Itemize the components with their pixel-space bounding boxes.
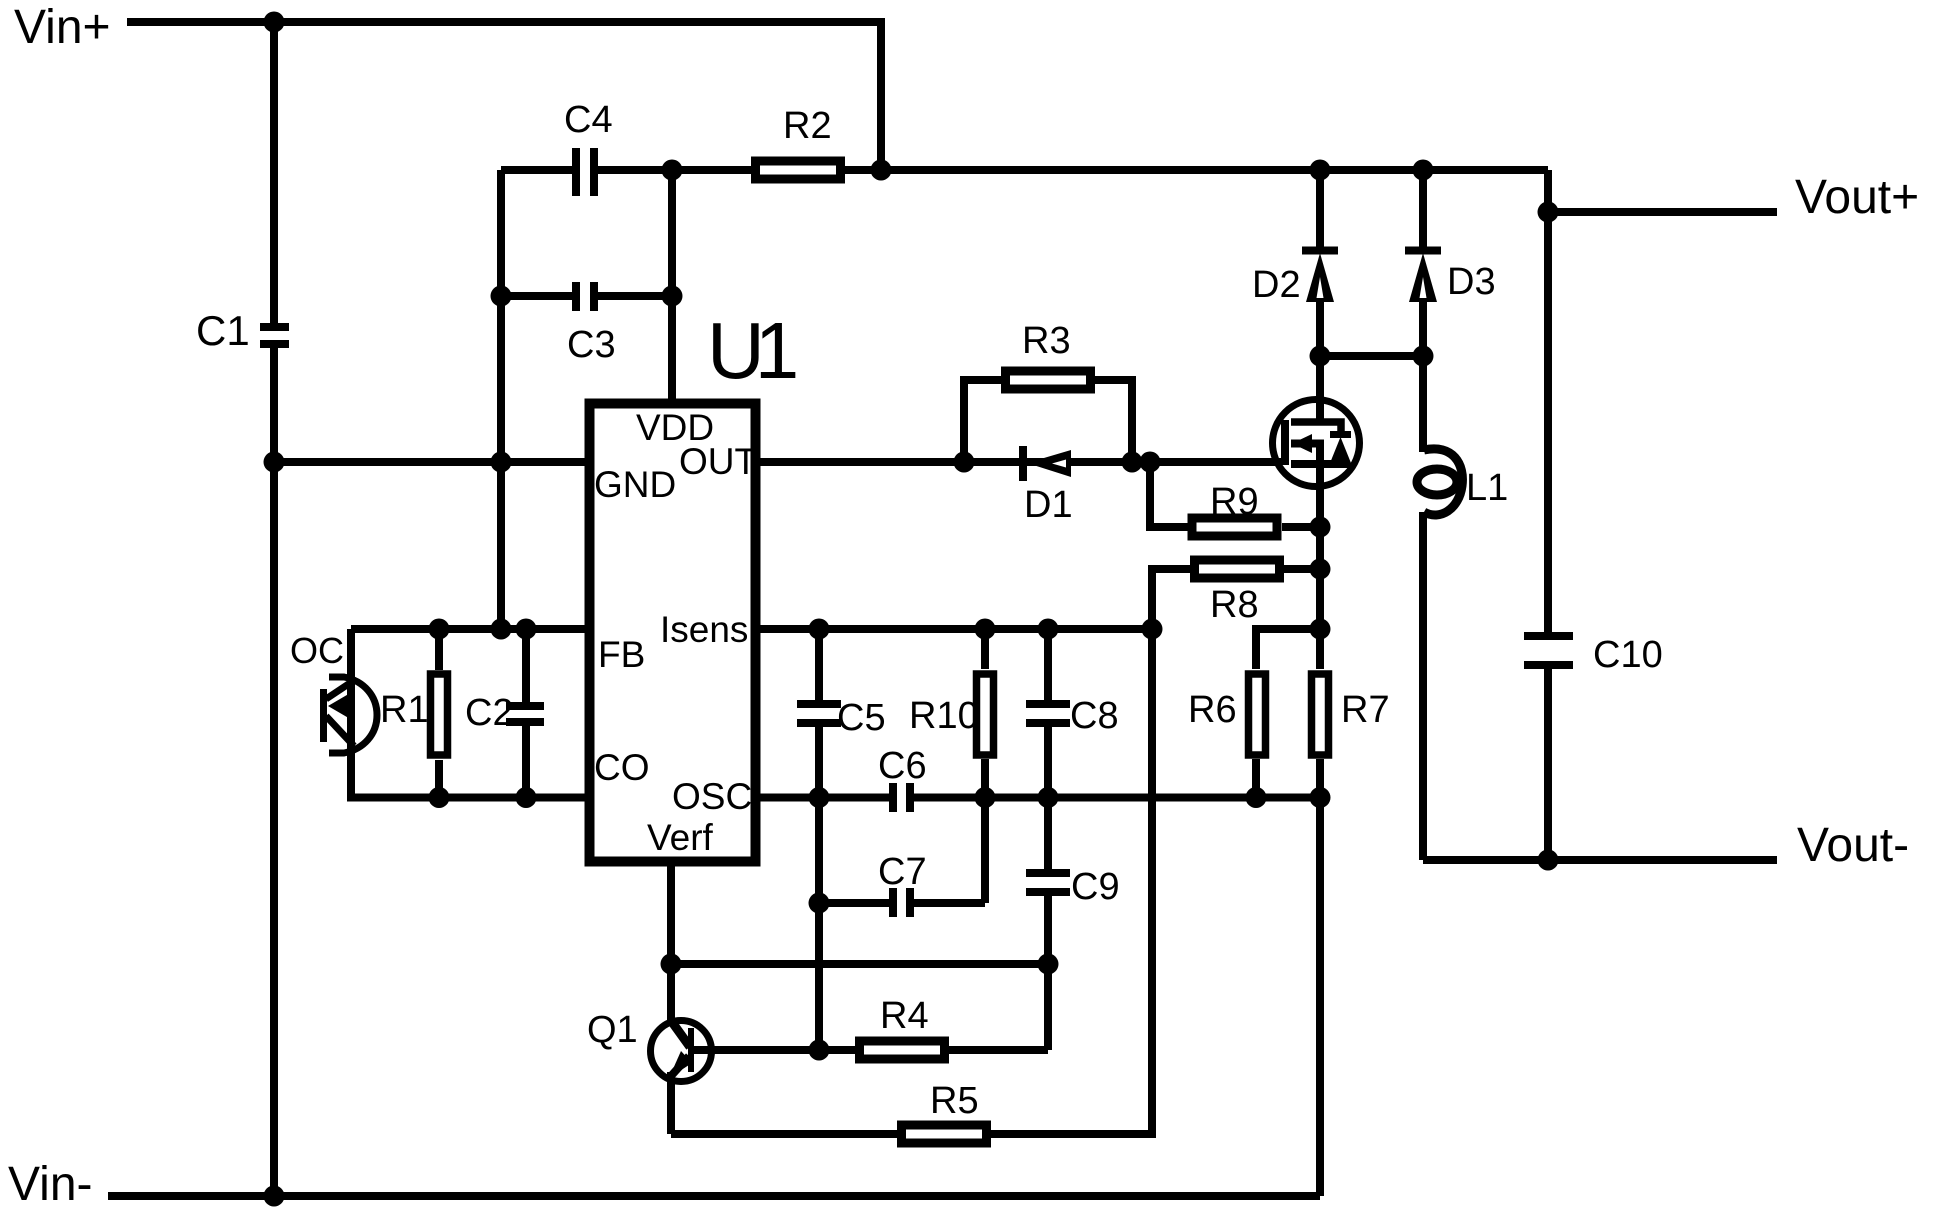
svg-text:C3: C3: [567, 324, 616, 366]
svg-text:C7: C7: [878, 851, 927, 893]
svg-text:FB: FB: [598, 634, 645, 675]
svg-text:C10: C10: [1593, 634, 1663, 676]
svg-text:C6: C6: [878, 745, 927, 787]
svg-text:D3: D3: [1447, 261, 1496, 303]
svg-text:R3: R3: [1022, 320, 1071, 362]
svg-text:R10: R10: [909, 695, 979, 737]
svg-text:CO: CO: [594, 747, 650, 788]
svg-text:OC: OC: [290, 630, 344, 671]
svg-text:Q1: Q1: [587, 1009, 638, 1051]
svg-text:Vout-: Vout-: [1797, 819, 1909, 872]
svg-text:D1: D1: [1024, 484, 1073, 526]
svg-text:R4: R4: [880, 995, 929, 1037]
svg-text:R9: R9: [1210, 481, 1259, 523]
svg-text:OUT: OUT: [679, 441, 757, 482]
svg-text:C1: C1: [196, 307, 250, 354]
svg-text:C2: C2: [465, 692, 514, 734]
svg-text:Vout+: Vout+: [1795, 171, 1919, 224]
svg-text:Vin-: Vin-: [8, 1158, 93, 1211]
svg-text:C4: C4: [564, 99, 613, 141]
svg-text:U1: U1: [707, 306, 796, 395]
svg-text:R6: R6: [1188, 689, 1237, 731]
svg-text:Verf: Verf: [647, 817, 714, 858]
svg-text:R7: R7: [1341, 689, 1390, 731]
svg-text:L1: L1: [1466, 467, 1508, 509]
svg-text:C5: C5: [837, 697, 886, 739]
svg-text:R2: R2: [783, 105, 832, 147]
svg-text:C9: C9: [1071, 866, 1120, 908]
svg-text:R8: R8: [1210, 584, 1259, 626]
svg-text:Vin+: Vin+: [14, 1, 111, 54]
svg-text:C8: C8: [1070, 695, 1119, 737]
svg-text:D2: D2: [1252, 264, 1301, 306]
svg-text:Isens: Isens: [660, 609, 748, 650]
svg-text:R1: R1: [380, 689, 429, 731]
svg-text:GND: GND: [594, 464, 676, 505]
svg-text:OSC: OSC: [672, 776, 752, 817]
svg-text:R5: R5: [930, 1080, 979, 1122]
